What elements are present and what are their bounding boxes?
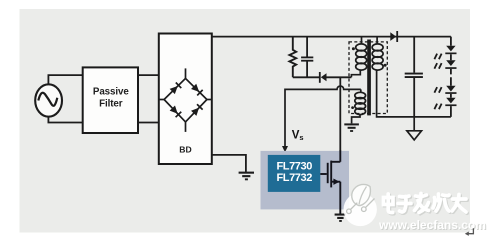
ground (MOSFET) bbox=[335, 214, 346, 222]
output capacitor C2 bbox=[405, 37, 423, 117]
ground (BD) bbox=[239, 172, 254, 181]
bridge diamond wires bbox=[159, 68, 212, 131]
svg-text:FL7732: FL7732 bbox=[276, 172, 312, 184]
bridge diode D3 (bottom-left) bbox=[169, 105, 181, 117]
clamp node wire bbox=[293, 76, 352, 78]
snubber resistor R1 bbox=[289, 37, 296, 78]
drain wire bbox=[339, 77, 341, 162]
passive filter block bbox=[83, 67, 138, 133]
LED D8 emission marks bbox=[434, 63, 441, 69]
LED D10 emission marks bbox=[434, 104, 441, 110]
output diode D6 bbox=[390, 31, 398, 42]
svg-text:Passive: Passive bbox=[93, 87, 129, 98]
wire AC top to filter bbox=[48, 75, 83, 85]
aux return wire bbox=[352, 114, 360, 123]
MOSFET source arrow bbox=[333, 179, 339, 185]
DC bus top wire bbox=[212, 36, 451, 38]
svg-text:FL7730: FL7730 bbox=[276, 161, 312, 173]
secondary phase dot bbox=[384, 64, 387, 67]
LED D7 bbox=[445, 46, 456, 55]
snubber capacitor C1 bbox=[301, 37, 313, 78]
bridge rectifier BD block bbox=[159, 34, 212, 165]
LED D9 emission marks bbox=[434, 87, 441, 93]
secondary winding bbox=[372, 37, 383, 71]
wire filter to BD bottom bbox=[138, 122, 159, 124]
LED chain wire bbox=[450, 37, 452, 117]
AC source V1 bbox=[35, 84, 62, 116]
bridge diode D1 (top-left) bbox=[169, 82, 181, 94]
primary return jog wire bbox=[351, 71, 360, 78]
LED D8 bbox=[445, 60, 456, 69]
primary winding bbox=[356, 37, 367, 71]
aux winding bbox=[355, 92, 366, 114]
cursor arrow bbox=[468, 228, 473, 234]
Vs arrowhead bbox=[282, 146, 288, 152]
LED D7 emission marks bbox=[434, 54, 441, 60]
MOSFET Q1 bbox=[320, 150, 340, 213]
ground (aux) bbox=[344, 123, 359, 132]
clamp diode D5 bbox=[319, 72, 327, 83]
svg-text:Filter: Filter bbox=[99, 98, 123, 109]
wire filter to BD top bbox=[138, 74, 159, 76]
bridge diode D4 (bottom-right) bbox=[191, 104, 203, 116]
svg-text:www.elecfans.com: www.elecfans.com bbox=[378, 218, 486, 232]
controller panel bbox=[261, 151, 350, 210]
wire BD to ground bbox=[212, 155, 246, 172]
primary phase dot bbox=[352, 47, 355, 50]
svg-text:BD: BD bbox=[179, 145, 191, 155]
Vs sense wire with hop bbox=[285, 86, 361, 146]
transformer core bbox=[367, 40, 371, 116]
ground (output) bbox=[407, 117, 422, 140]
wire AC bottom to filter bbox=[48, 116, 83, 123]
LED D9 bbox=[445, 86, 456, 94]
FL7730 / FL7732 IC bbox=[268, 155, 321, 192]
LED D10 bbox=[445, 98, 456, 106]
bridge diode D2 (top-right) bbox=[191, 84, 203, 96]
watermark text 电子发烧友 bbox=[385, 195, 468, 214]
transformer T1 dashed box bbox=[349, 42, 387, 114]
aux phase dot bbox=[351, 106, 354, 109]
secondary return wire bbox=[377, 70, 451, 117]
watermark logo bbox=[344, 184, 377, 226]
aux top stub bbox=[360, 89, 362, 93]
